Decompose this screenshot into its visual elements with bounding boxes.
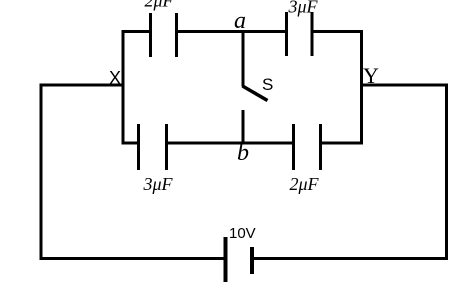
capacitor 3uF (top-right) plates <box>287 12 313 56</box>
wire: bottom rail right segment (from battery) <box>252 257 448 260</box>
battery 10V: short (negative) plate <box>250 247 254 274</box>
wire: bottom rail left segment (to battery) <box>40 257 225 260</box>
wire: inner right rail <box>360 30 363 145</box>
svg-text:X: X <box>109 68 121 88</box>
svg-text:a: a <box>234 8 246 34</box>
svg-text:3μF: 3μF <box>143 174 174 194</box>
wire: top rail segment 2 <box>177 30 287 33</box>
battery 10V: long (positive) plate <box>224 237 228 282</box>
wire: X lead (node X horizontal wire) <box>40 84 125 87</box>
svg-text:b: b <box>237 140 249 166</box>
wire: switch lower contact to node b <box>242 110 245 145</box>
svg-text:S: S <box>262 75 273 94</box>
wire: outer left rail <box>40 84 43 261</box>
capacitor 3uF (bottom-left) plates <box>139 124 167 170</box>
wire: inner left rail <box>122 30 125 145</box>
svg-text:10V: 10V <box>229 225 256 242</box>
svg-text:3μF: 3μF <box>288 0 319 17</box>
svg-text:Y: Y <box>363 63 379 88</box>
capacitor 2uF (bottom-right) plates <box>294 124 321 170</box>
wire: inner bottom rail segment 1 <box>122 142 140 145</box>
switch S blade (open switch arm) <box>243 86 268 101</box>
wire: Y lead (node Y horizontal wire) <box>360 84 448 87</box>
wire: top rail segment 1 <box>122 30 152 33</box>
capacitor 2uF (top-left) plates <box>151 13 177 57</box>
wire: inner bottom rail segment 3 <box>321 142 364 145</box>
wire: top rail segment 3 <box>312 30 363 33</box>
svg-text:2μF: 2μF <box>145 0 175 11</box>
svg-text:2μF: 2μF <box>290 174 320 194</box>
node a: junction wire from top rail down to switch <box>242 30 245 87</box>
wire: inner bottom rail segment 2 <box>167 142 295 145</box>
wire: outer right rail <box>445 84 448 261</box>
